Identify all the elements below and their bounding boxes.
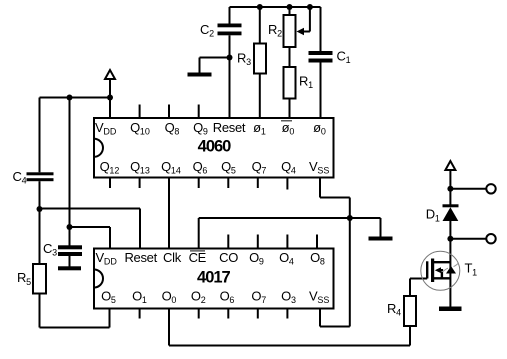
svg-text:CO: CO: [219, 250, 238, 265]
svg-text:4060: 4060: [198, 138, 232, 156]
svg-text:Clk: Clk: [163, 250, 182, 265]
svg-text:Reset: Reset: [124, 250, 157, 265]
svg-text:Reset: Reset: [213, 120, 246, 135]
svg-text:4017: 4017: [197, 268, 231, 286]
svg-text:CE: CE: [189, 250, 207, 265]
